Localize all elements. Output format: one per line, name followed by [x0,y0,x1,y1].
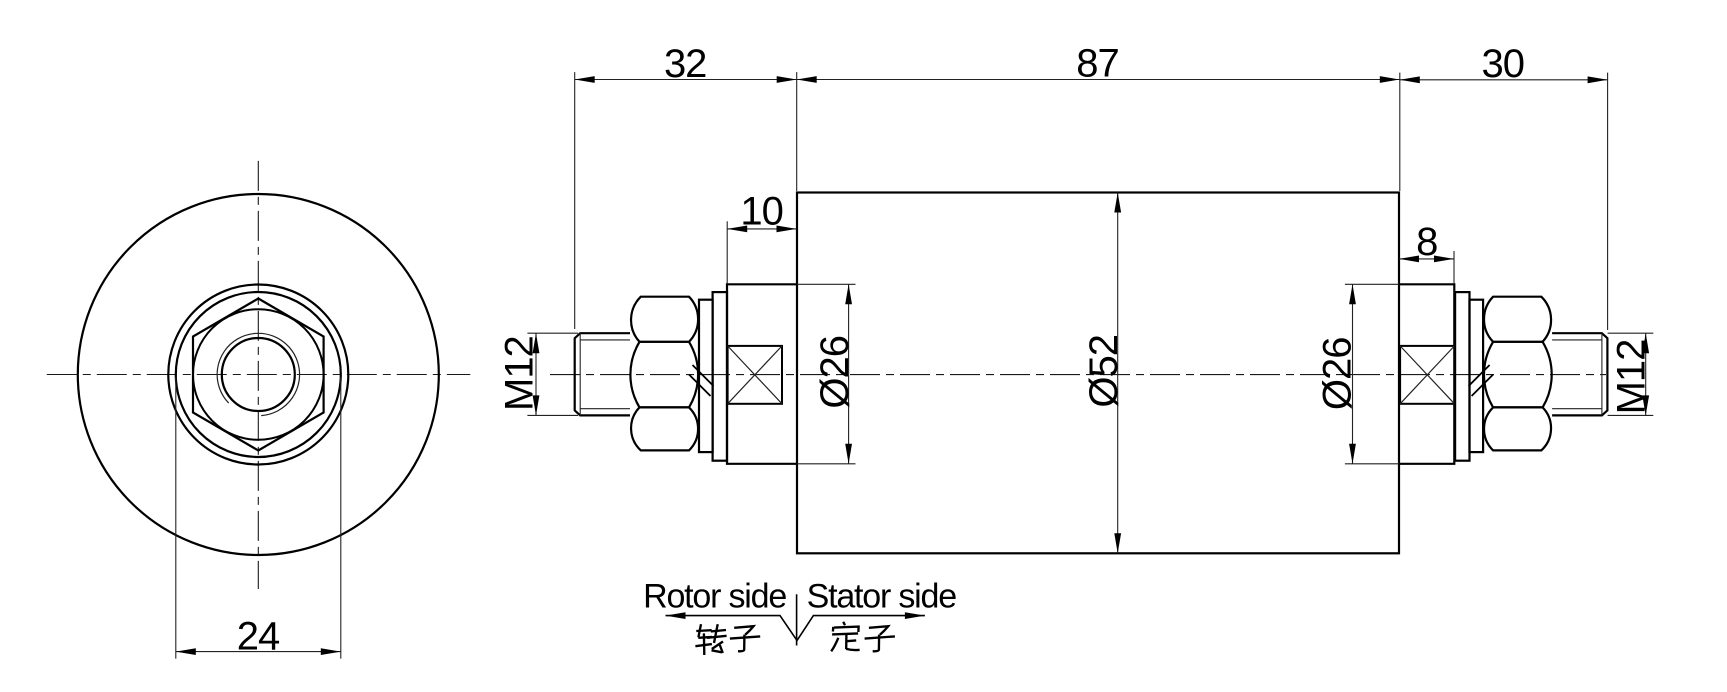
ext line at x=1607.6 [1607,73,1609,330]
ext line at x=796.7 [796,72,798,191]
dim line 87 [797,79,1400,81]
spring washer [699,300,713,452]
ext line top [1608,332,1654,334]
outer circle D52 [78,194,439,555]
dim line M12 right [1645,333,1647,415]
centerline horizontal (front view) [47,374,471,376]
ext line at x=1399.8 [1399,73,1401,191]
svg-text:30: 30 [1482,42,1525,86]
dim line 10 [727,228,796,230]
svg-text:Rotor side: Rotor side [643,578,786,616]
centerline horizontal (side view) [550,374,1606,376]
rotor arrow line with V [666,616,925,641]
divider vertical line [796,594,798,645]
boss circle D26 [168,285,348,465]
dim 24 extension line left [175,377,177,659]
nut chamfer circle [193,309,324,440]
svg-text:32: 32 [664,42,707,86]
left boss D26 [727,284,797,464]
svg-text:M12: M12 [1610,340,1654,415]
svg-text:Stator side: Stator side [807,578,957,616]
hanzi ding (fixed) [831,622,859,652]
hex nut side view: top band [631,297,698,342]
svg-text:87: 87 [1076,42,1119,86]
svg-text:10: 10 [740,189,783,233]
body D52 rectangle [797,193,1399,554]
hex nut side view: middle band [630,342,698,408]
bearing box diagonal 1 [728,346,782,404]
dim line 30 [1400,79,1608,81]
bearing box diagonal 2 [728,346,782,404]
spring washer split line 2 [689,375,711,397]
ext line bottom [527,414,578,416]
ext line at x=1454 [1453,251,1455,284]
ext line at x=574.7 [574,72,576,329]
ext line top [527,332,578,334]
ext line bottom [1608,414,1654,416]
hanzi zi (child) after ding [865,626,895,651]
stud hole circle [222,338,295,411]
thread major 3/4 arc [217,333,299,415]
centerline vertical (front view) [257,161,259,589]
spring washer split line 1 [693,365,714,386]
hex nut side view: bottom band [631,407,698,450]
right boss D26 [1399,284,1454,464]
dim line D26 left [848,284,850,464]
stud thread minor line bottom [580,408,630,410]
washer circle D24 [176,292,341,457]
svg-text:Ø52: Ø52 [1082,335,1126,408]
ext line bottom [1345,463,1399,465]
svg-text:Ø26: Ø26 [813,336,857,409]
ext line bottom [797,463,856,465]
ext line top [797,283,856,285]
stud M12 [575,333,630,415]
ext line at x=727.2 [726,221,728,283]
dim 24 extension line right [340,377,342,659]
hex nut outline (front) [193,299,324,451]
flat washer [713,292,727,461]
svg-text:Ø26: Ø26 [1316,337,1360,410]
ext line top [1345,283,1399,285]
dim line 8 [1399,258,1454,260]
hanzi zhuan (rotate) [695,624,726,655]
dim line D52 [1117,193,1119,554]
dim line 32 [575,79,797,81]
dim line M12 left [535,333,537,415]
dim line D26 right [1352,284,1354,464]
bearing box [728,346,782,404]
hanzi zi (child) after zhuan [730,626,760,651]
stud chamfer witness line [579,333,581,415]
svg-text:8: 8 [1416,220,1437,264]
svg-text:M12: M12 [498,336,542,411]
svg-text:24: 24 [237,615,280,659]
stud thread minor line top [580,339,630,341]
dim 24 dimension line [176,651,341,653]
